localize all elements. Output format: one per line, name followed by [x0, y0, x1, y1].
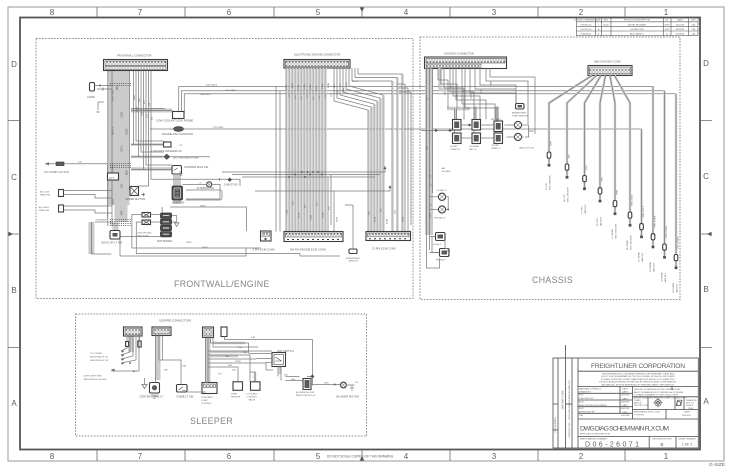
svg-text:GRD: GRD	[111, 199, 115, 205]
chassis cluster shading	[440, 68, 497, 121]
wire loop around starter/alternator	[186, 190, 222, 200]
svg-text:96E1 2: 96E1 2	[111, 126, 115, 135]
svg-text:DWG DIAG SCHEM MAIN FLX CUM: DWG DIAG SCHEM MAIN FLX CUM	[580, 426, 669, 433]
svg-text:REMOVABLE MTG CODE:: REMOVABLE MTG CODE:	[634, 411, 661, 414]
svg-text:WHL SENSOR: WHL SENSOR	[616, 223, 618, 238]
svg-text:G-SIZE: G-SIZE	[709, 462, 725, 468]
slpr light/grd note	[84, 376, 108, 382]
svg-text:RH HDLP: RH HDLP	[436, 260, 446, 262]
engine ecm harness shading	[287, 68, 403, 232]
svg-text:7: 7	[138, 8, 143, 17]
svg-text:RH REAR: RH REAR	[672, 282, 675, 292]
svg-text:8: 8	[50, 8, 55, 17]
svg-text:465A: 465A	[402, 216, 405, 222]
svg-text:44BE: 44BE	[137, 106, 139, 112]
svg-text:BRN: BRN	[617, 189, 619, 194]
svg-text:3: 3	[492, 452, 497, 461]
svg-text:LOW COOLANT LEVL PROBE: LOW COOLANT LEVL PROBE	[156, 118, 193, 122]
svg-text:LH FRT: LH FRT	[450, 146, 458, 148]
svg-text:LJ: LJ	[666, 34, 668, 36]
svg-text:54G: 54G	[238, 347, 242, 349]
svg-text:CHECKED BY:: CHECKED BY:	[579, 398, 594, 400]
abs wire color labels	[551, 141, 680, 249]
svg-text:09/13/00: 09/13/00	[682, 415, 691, 417]
turn/park lamp relay row 1	[453, 120, 503, 132]
bundle splice dot bands	[110, 84, 131, 226]
revision table header text	[574, 19, 696, 36]
svg-text:137A: 137A	[336, 89, 339, 95]
svg-text:FRONTWALL/ENGINE: FRONTWALL/ENGINE	[174, 279, 270, 289]
svg-text:48B: 48B	[142, 112, 144, 116]
title block left fields	[579, 388, 630, 417]
svg-text:2W PIN ENGINE ECM CONN: 2W PIN ENGINE ECM CONN	[290, 248, 326, 252]
svg-text:FRONTWALL CONNECTOR: FRONTWALL CONNECTOR	[117, 54, 151, 58]
svg-text:CHASSIS CONNECTOR: CHASSIS CONNECTOR	[444, 52, 474, 56]
fan switch	[249, 349, 294, 367]
svg-text:D06-26071: D06-26071	[585, 441, 639, 448]
svg-text:440R/3A13: 440R/3A13	[200, 93, 212, 96]
svg-text:APP: APP	[691, 19, 696, 22]
chassis left bundle wires	[427, 69, 433, 251]
svg-text:W60: W60	[324, 383, 329, 385]
svg-text:SEE MODULE 2W: SEE MODULE 2W	[90, 360, 109, 362]
svg-text:04/11/96: 04/11/96	[621, 408, 630, 410]
svg-text:120A: 120A	[285, 84, 288, 90]
svg-text:132A: 132A	[321, 83, 324, 89]
svg-text:23DA: 23DA	[125, 128, 129, 135]
chassis connector wire labels	[439, 80, 493, 99]
rh hdlp	[432, 237, 450, 262]
svg-text:54B: 54B	[251, 337, 255, 339]
svg-text:2: 2	[579, 452, 584, 461]
svg-text:D06-26071-000: D06-26071-000	[561, 390, 565, 409]
abs harness fan shading	[549, 76, 676, 267]
svg-text:PART/DRAWING NUMBER:: PART/DRAWING NUMBER:	[580, 437, 608, 440]
lamp cluster bus wire	[421, 125, 494, 138]
wires between connectors	[276, 86, 280, 231]
svg-text:GRN-YEL-1: GRN-YEL-1	[643, 205, 645, 217]
svg-text:UPDATE WIR: UPDATE WIR	[630, 28, 644, 31]
svg-text:LH TAIL LT: LH TAIL LT	[437, 189, 448, 192]
roadspeed sensor	[345, 205, 360, 263]
abs harness fan wires	[549, 76, 676, 267]
svg-text:BATTERIES: BATTERIES	[158, 239, 173, 243]
svg-text:56A: 56A	[291, 378, 295, 381]
svg-text:C: C	[703, 172, 709, 181]
back-up lamp left	[514, 121, 521, 128]
svg-text:DWG DIAG DIA SCHEMATIC MAIN: DWG DIAG DIA SCHEMATIC MAIN FLX	[568, 380, 571, 420]
svg-text:CHASSIS: CHASSIS	[532, 275, 573, 285]
svg-text:6: 6	[227, 452, 232, 461]
svg-text:ELECTRONIC ENGINE CONNECTOR: ELECTRONIC ENGINE CONNECTOR	[294, 53, 340, 57]
svg-text:D: D	[11, 60, 17, 69]
svg-text:TRD 2: TRD 2	[111, 164, 115, 172]
svg-text:453A: 453A	[322, 212, 325, 218]
svg-text:ELECTRONIC: ELECTRONIC	[138, 233, 153, 235]
svg-text:LTR: LTR	[597, 20, 601, 22]
svg-text:ACE: ACE	[579, 400, 584, 403]
wire 440L/3A19	[182, 91, 665, 112]
title block frame	[553, 345, 698, 448]
frame zone letters right	[703, 59, 709, 406]
svg-text:WHL SENSOR: WHL SENSOR	[568, 187, 570, 202]
horn	[87, 83, 112, 115]
sleeper connector 1	[124, 327, 143, 336]
back-up lamp right	[504, 125, 534, 150]
wire 440R/3A13	[184, 94, 676, 113]
svg-text:A: A	[11, 399, 17, 408]
wire 43A	[159, 360, 181, 385]
svg-text:7: 7	[138, 452, 143, 461]
svg-text:RH FRT: RH FRT	[564, 193, 566, 202]
svg-text:PRODUCTION: PRODUCTION	[569, 422, 571, 437]
svg-text:139A: 139A	[286, 209, 289, 215]
svg-text:APPROVED BY:: APPROVED BY:	[579, 411, 596, 414]
bundle wire labels	[111, 85, 129, 215]
slpr light wire with arrow	[111, 334, 139, 372]
svg-text:P08769-07: P08769-07	[581, 34, 592, 36]
title block vertical texts	[555, 380, 571, 438]
batteries	[158, 207, 179, 243]
svg-text:97BN: 97BN	[235, 361, 241, 363]
svg-text:STARTER MAG SW: STARTER MAG SW	[184, 165, 209, 169]
svg-text:WHL SENSOR: WHL SENSOR	[550, 175, 552, 190]
abs chassis conn	[588, 66, 632, 76]
electronic engine connector	[284, 60, 350, 69]
svg-text:04/11/96: 04/11/96	[621, 395, 630, 397]
svg-text:56D: 56D	[284, 375, 288, 377]
svg-text:96*: 96*	[180, 175, 183, 177]
svg-text:463B: 463B	[387, 218, 389, 224]
frame zone numbers top	[50, 8, 669, 17]
svg-text:ABS SLV: ABS SLV	[641, 252, 644, 261]
svg-text:BLK: BLK	[586, 165, 588, 170]
svg-text:A/C HIGH: A/C HIGH	[39, 206, 49, 209]
svg-text:94C74: 94C74	[352, 81, 359, 83]
to power receptacle note	[90, 353, 109, 362]
low coolant level probe	[131, 109, 193, 123]
svg-text:LH REAR: LH REAR	[611, 229, 614, 239]
svg-text:ADD SAFETY: ADD SAFETY	[630, 33, 644, 36]
svg-text:CONTROL: CONTROL	[201, 403, 212, 405]
ambient air temp sensor	[512, 104, 528, 118]
sleeper connector 4	[221, 327, 227, 337]
svg-text:6: 6	[227, 8, 232, 17]
temp sensor	[231, 382, 243, 399]
svg-text:LH REAR: LH REAR	[660, 272, 663, 282]
svg-text:SLEEPER CONNECTORS: SLEEPER CONNECTORS	[159, 319, 191, 323]
svg-text:5: 5	[316, 8, 321, 17]
svg-text:1: 1	[664, 8, 669, 17]
svg-text:ABS RLY: ABS RLY	[584, 204, 587, 214]
frame zone letters left	[11, 60, 17, 408]
sleeper connector 2	[152, 327, 171, 336]
svg-text:RH TAIL LT: RH TAIL LT	[435, 216, 447, 219]
svg-text:CONTROL: CONTROL	[247, 397, 258, 399]
svg-text:TAIL LP: TAIL LP	[469, 148, 477, 151]
relay 46P6	[108, 173, 119, 180]
main harness bundle shading	[108, 71, 130, 206]
sleeper harness drops to dome	[188, 383, 209, 393]
svg-text:SEE MODULE 302/309: SEE MODULE 302/309	[84, 379, 108, 381]
constant comp control	[201, 383, 217, 406]
sleeper connector 3	[203, 327, 214, 338]
svg-text:CAB STUD: CAB STUD	[224, 182, 238, 186]
svg-text:COOLANT: COOLANT	[247, 393, 258, 396]
blower motor	[337, 382, 359, 399]
svg-text:P07422-00: P07422-00	[581, 29, 592, 31]
abs wire end terminals	[548, 164, 678, 269]
svg-text:A: A	[703, 397, 709, 406]
svg-text:TO HAND NUMBERS 777-SPC-700(-): TO HAND NUMBERS 777-SPC-700(-). WITH	[634, 394, 679, 397]
svg-text:05/08/00: 05/08/00	[676, 34, 685, 36]
svg-text:B: B	[11, 286, 16, 295]
svg-text:410A: 410A	[298, 212, 301, 218]
svg-text:DRAWN BY:: DRAWN BY:	[579, 391, 592, 394]
cab stud	[219, 178, 238, 187]
svg-text:DRAWING: DRAWING	[686, 399, 697, 402]
svg-text:P06787-00: P06787-00	[581, 24, 592, 26]
svg-text:56T: 56T	[218, 374, 222, 376]
lh tail lt	[430, 189, 448, 201]
svg-text:FOR ANY PURPOSE OTHER THAN THA: FOR ANY PURPOSE OTHER THAN THAT FOR WHIC…	[601, 378, 676, 381]
svg-text:46P6: 46P6	[109, 177, 115, 179]
svg-text:A/C LOW: A/C LOW	[40, 191, 50, 194]
svg-text:440L/3A19: 440L/3A19	[225, 89, 236, 92]
svg-text:21 PIN ECM CONN: 21 PIN ECM CONN	[372, 247, 396, 251]
blower motor resistor block	[296, 379, 316, 397]
svg-text:SCALE: SCALE	[686, 404, 694, 407]
svg-text:4: 4	[404, 8, 409, 17]
svg-text:LH FRT: LH FRT	[546, 182, 548, 190]
svg-text:24A: 24A	[225, 355, 229, 358]
svg-text:B: B	[703, 285, 708, 294]
center dome lt	[140, 383, 164, 399]
svg-text:04/11/96: 04/11/96	[676, 24, 685, 26]
svg-text:56D: 56D	[232, 370, 236, 372]
svg-text:4: 4	[404, 452, 409, 461]
back-up lt sw	[102, 231, 123, 245]
svg-text:ABS CHASSIS CONN: ABS CHASSIS CONN	[594, 60, 621, 64]
turn/park lamp relay row 2	[453, 133, 503, 144]
svg-text:HORN: HORN	[87, 95, 95, 99]
mid wire labels	[134, 94, 154, 120]
svg-text:ANGLE: ANGLE	[634, 401, 642, 404]
svg-text:GRN-273BN: GRN-273BN	[666, 225, 668, 238]
svg-text:VALVE: VALVE	[249, 399, 256, 402]
svg-text:ANY AND ALL RIGHTS RESERVED BY: ANY AND ALL RIGHTS RESERVED BY FREIGHTLI…	[602, 383, 675, 386]
svg-text:3 PIN ECM CONN: 3 PIN ECM CONN	[253, 248, 275, 252]
svg-text:RESISTOR BLOCK: RESISTOR BLOCK	[296, 395, 316, 397]
svg-text:RN DR/LP: RN DR/LP	[491, 119, 502, 121]
chassis bundle labels	[427, 97, 432, 218]
svg-text:IS NOT FOR DISSEMINATION OR DI: IS NOT FOR DISSEMINATION OR DISCLOSURE. …	[601, 375, 676, 378]
svg-text:130C: 130C	[316, 85, 318, 91]
svg-text:455B: 455B	[337, 216, 339, 222]
svg-text:FAN SWITCH: FAN SWITCH	[277, 349, 294, 353]
svg-text:ABS RLY: ABS RLY	[676, 283, 679, 293]
revision table grid	[577, 18, 699, 36]
coolant control valve	[247, 372, 261, 402]
svg-text:GRD: GRD	[430, 213, 432, 218]
svg-text:440C/3A13: 440C/3A13	[206, 83, 218, 86]
svg-text:SENSOR: SENSOR	[349, 261, 359, 263]
svg-text:CONSTANT: CONSTANT	[201, 396, 214, 399]
starter mag sw	[131, 165, 209, 177]
svg-text:96A: 96A	[115, 85, 119, 90]
low wts washer lvl	[131, 142, 183, 153]
svg-text:PRES SW: PRES SW	[40, 195, 51, 197]
svg-text:PRES SW: PRES SW	[39, 210, 50, 212]
engine fan solenoid	[150, 127, 642, 136]
svg-text:DATE: DATE	[677, 19, 683, 22]
svg-text:DOME LT SW: DOME LT SW	[177, 395, 194, 399]
center dome lt wires	[156, 334, 163, 383]
svg-text:W600: W600	[202, 247, 208, 249]
frontwall connector	[104, 60, 168, 71]
svg-text:GRN: GRN	[551, 141, 553, 146]
sleeper region dashed box	[76, 314, 367, 436]
svg-text:AND TOLERANCES NOT DEFINED ACC: AND TOLERANCES NOT DEFINED ACCORDING	[634, 391, 684, 394]
starter	[172, 186, 184, 204]
svg-text:RECEPTACLE CE: RECEPTACLE CE	[90, 356, 109, 359]
svg-text:SENSOR: SENSOR	[231, 397, 241, 399]
wire 54B loop to junction	[225, 337, 313, 386]
svg-text:BLU: BLU	[569, 153, 571, 158]
svg-text:W/S WASHER PUMP: W/S WASHER PUMP	[173, 156, 199, 160]
svg-text:BLU-Y73BN: BLU-Y73BN	[678, 236, 680, 248]
svg-text:TO POWER: TO POWER	[90, 353, 102, 355]
svg-text:126B: 126B	[304, 83, 306, 89]
svg-text:ABS RLY: ABS RLY	[600, 216, 603, 226]
sleeper harness shading	[131, 334, 280, 385]
alternator	[183, 182, 221, 199]
svg-text:ABS RLY: ABS RLY	[664, 272, 667, 282]
wire 440C/3A13	[179, 86, 653, 112]
chassis left bundle shading	[425, 69, 433, 236]
svg-text:96F: 96F	[120, 210, 124, 215]
svg-text:8: 8	[50, 452, 55, 461]
svg-text:439B: 439B	[311, 214, 313, 220]
2w pin engine ecm conn	[284, 232, 343, 252]
frontwall region dashed box	[36, 39, 413, 299]
chassis cluster feed wires	[438, 68, 535, 134]
title block projection symbols	[653, 398, 682, 408]
svg-text:43B: 43B	[164, 370, 168, 372]
chassis region dashed box	[420, 37, 680, 300]
svg-text:ORG: ORG	[602, 177, 604, 182]
svg-text:LH DRL: LH DRL	[491, 145, 500, 147]
junction dots on ignition feeds	[288, 171, 323, 178]
a/c low pres sw	[40, 190, 112, 199]
svg-text:128A: 128A	[309, 84, 312, 90]
svg-text:REV: REV	[604, 20, 609, 22]
frame zone ticks bottom	[97, 450, 625, 461]
ignition feed wires across ecm bundle	[222, 167, 390, 191]
wire battery ground loop	[120, 239, 246, 256]
title block disclaimer	[599, 373, 677, 387]
svg-text:06/06/96: 06/06/96	[676, 29, 685, 31]
ecm wire rotated labels	[285, 82, 405, 224]
svg-text:ORN-373BK: ORN-373BK	[655, 215, 657, 228]
sleeper wire labels	[218, 337, 255, 376]
svg-text:DATE:: DATE:	[622, 404, 629, 407]
svg-text:1 OF 2: 1 OF 2	[682, 442, 692, 446]
svg-text:STARTER: STARTER	[172, 200, 184, 204]
svg-text:2297/96E7: 2297/96E7	[213, 127, 224, 129]
svg-text:DO NOT SCALE COPIES OF THIS DR: DO NOT SCALE COPIES OF THIS DRAWING	[327, 455, 394, 459]
w/s washer pump	[131, 154, 210, 159]
svg-text:DATE:: DATE:	[622, 397, 629, 400]
svg-text:F-OFFICE: F-OFFICE	[634, 415, 645, 417]
inline fuses on connector wires	[126, 342, 129, 347]
svg-text:04/11/96: 04/11/96	[621, 415, 630, 417]
dome lt sw	[177, 385, 194, 399]
svg-text:96: 96	[97, 110, 100, 114]
svg-text:RESPONSIBLE ENGINEER:: RESPONSIBLE ENGINEER:	[579, 405, 607, 407]
svg-text:04/11/96: 04/11/96	[621, 401, 630, 403]
svg-text:43A: 43A	[182, 364, 186, 367]
svg-text:DATE:: DATE:	[622, 411, 629, 414]
svg-text:APPLICATION DESCRIPTION:: APPLICATION DESCRIPTION:	[580, 433, 611, 436]
svg-text:2240/96BN: 2240/96BN	[96, 220, 107, 222]
svg-text:TEMP: TEMP	[231, 394, 238, 396]
svg-text:GD: GD	[355, 382, 359, 384]
svg-text:LOW WTS WASHER LVL: LOW WTS WASHER LVL	[152, 149, 183, 153]
frame zone ticks top	[97, 7, 625, 18]
wire to cab stud	[167, 179, 241, 186]
svg-text:461A: 461A	[374, 216, 377, 222]
svg-text:54D: 54D	[243, 352, 247, 354]
3 pin ecm conn	[253, 231, 275, 252]
title block right fields	[634, 389, 697, 417]
svg-text:SOLNDE: SOLNDE	[442, 171, 452, 173]
svg-text:LH HDLP: LH HDLP	[432, 244, 442, 246]
svg-text:SLPR LIGHT/GRD: SLPR LIGHT/GRD	[84, 376, 103, 378]
21 pin ecm conn	[366, 232, 411, 251]
svg-text:RH REAR: RH REAR	[626, 240, 629, 250]
svg-text:2A0 TRD: 2A0 TRD	[111, 90, 115, 101]
a/c comp clutch	[44, 162, 108, 220]
svg-text:1: 1	[664, 452, 669, 461]
svg-text:23F: 23F	[427, 146, 429, 150]
svg-text:LH REAR: LH REAR	[637, 252, 640, 262]
svg-text:3: 3	[492, 8, 497, 17]
svg-text:W610: W610	[186, 242, 192, 244]
wire W60 to blower motor	[311, 384, 341, 386]
svg-text:ROADSPEED: ROADSPEED	[346, 257, 360, 260]
svg-text:46P: 46P	[149, 102, 151, 106]
svg-text:REVISION DESCRIPTION: REVISION DESCRIPTION	[624, 20, 650, 22]
svg-text:2: 2	[579, 8, 584, 17]
svg-text:DWG: DWG	[688, 408, 694, 410]
air solenoid label	[431, 167, 452, 206]
svg-text:C: C	[11, 173, 17, 182]
abs wire connector pills	[547, 152, 678, 261]
svg-text:MATERIAL SYMBOLS:: MATERIAL SYMBOLS:	[579, 388, 602, 391]
svg-text:PROJECTION: PROJECTION	[634, 405, 649, 407]
wire W610 battery to ecm	[300, 254, 340, 257]
svg-text:SLEEPER: SLEEPER	[190, 416, 233, 426]
svg-text:W600: W600	[200, 205, 206, 207]
frame zone ticks sides	[8, 121, 712, 348]
svg-text:PRNE LP: PRNE LP	[491, 148, 501, 150]
svg-text:BACK-UP LT SW: BACK-UP LT SW	[102, 241, 123, 245]
svg-text:ECN: ECN	[604, 24, 609, 26]
abs wire destination labels	[546, 175, 679, 293]
sleeper connector 3 harness fan	[206, 337, 274, 393]
electronic eng fuse	[132, 213, 300, 254]
